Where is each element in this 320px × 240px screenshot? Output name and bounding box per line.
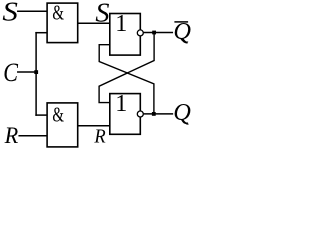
svg-text:1: 1 (115, 11, 127, 37)
swash tail of Qbar glyph (181, 38, 188, 43)
wire NOR U4 output to Q (143, 113, 172, 115)
svg-text:&: & (52, 1, 64, 25)
svg-text:C: C (3, 58, 18, 87)
wire AND U2 output node R1 (78, 125, 110, 127)
overline Qbar (174, 21, 188, 23)
nor-gate U3 box (110, 14, 141, 56)
nor-gate U4 box (110, 94, 141, 135)
swash tail of Q glyph (182, 119, 189, 124)
inversion bubble U4 output (137, 111, 143, 117)
and-gate U1 box (47, 3, 78, 43)
wire C to AND U1 (36, 32, 47, 34)
svg-text:&: & (52, 103, 64, 127)
and-gate U2 box (47, 103, 78, 147)
junction Qbar node (152, 31, 156, 35)
junction Q node (152, 112, 156, 116)
svg-text:Q: Q (173, 100, 191, 126)
wire AND U1 output node S1 (78, 22, 110, 24)
wire C branch vertical (35, 33, 37, 115)
svg-text:S: S (95, 0, 110, 28)
wire feedback Q to NOR U3 input (99, 45, 154, 114)
junction C node (34, 70, 38, 74)
wire C input (18, 71, 36, 73)
wire S input (18, 10, 47, 12)
wire R input (19, 135, 47, 137)
svg-text:R: R (93, 126, 106, 148)
wire C to AND U2 (36, 114, 47, 116)
wire feedback Qbar to NOR U4 input (99, 33, 154, 103)
svg-text:1: 1 (115, 91, 127, 117)
svg-text:R: R (4, 123, 19, 148)
wire NOR U3 output to Qbar (143, 32, 172, 34)
inversion bubble U3 output (137, 30, 143, 36)
svg-text:S: S (2, 0, 18, 27)
